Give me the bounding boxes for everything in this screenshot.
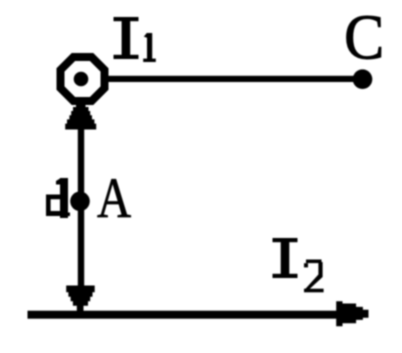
label I2 subscript "2" glyph: [304, 260, 324, 293]
label C: [344, 3, 384, 73]
label I1 subscript "1" glyph: [143, 33, 156, 62]
node A dot: [70, 192, 90, 212]
node C dot: [353, 69, 373, 89]
label I1 "I" glyph: [114, 17, 139, 59]
wire W1 current-out-of-page symbol: center dot: [74, 72, 89, 87]
label A: [97, 167, 131, 230]
wire segment from I1 symbol to node C: [106, 76, 362, 82]
label d (bold): [46, 178, 70, 218]
label I2 "I" glyph: [273, 238, 298, 278]
dimension d: lower arrowhead (points at wire W2): [66, 286, 95, 312]
wire W1 current-out-of-page symbol: octagon ring: [61, 57, 105, 101]
svg-text:A: A: [97, 167, 131, 230]
wire W2 arrowhead (current direction I2): [336, 301, 368, 326]
dimension d: vertical line between wires W1 and W2: [78, 120, 84, 290]
svg-text:C: C: [344, 3, 384, 73]
wire W2 (bottom, current I2): [28, 311, 342, 319]
dimension d: upper arrowhead (points at wire W1): [65, 103, 96, 130]
